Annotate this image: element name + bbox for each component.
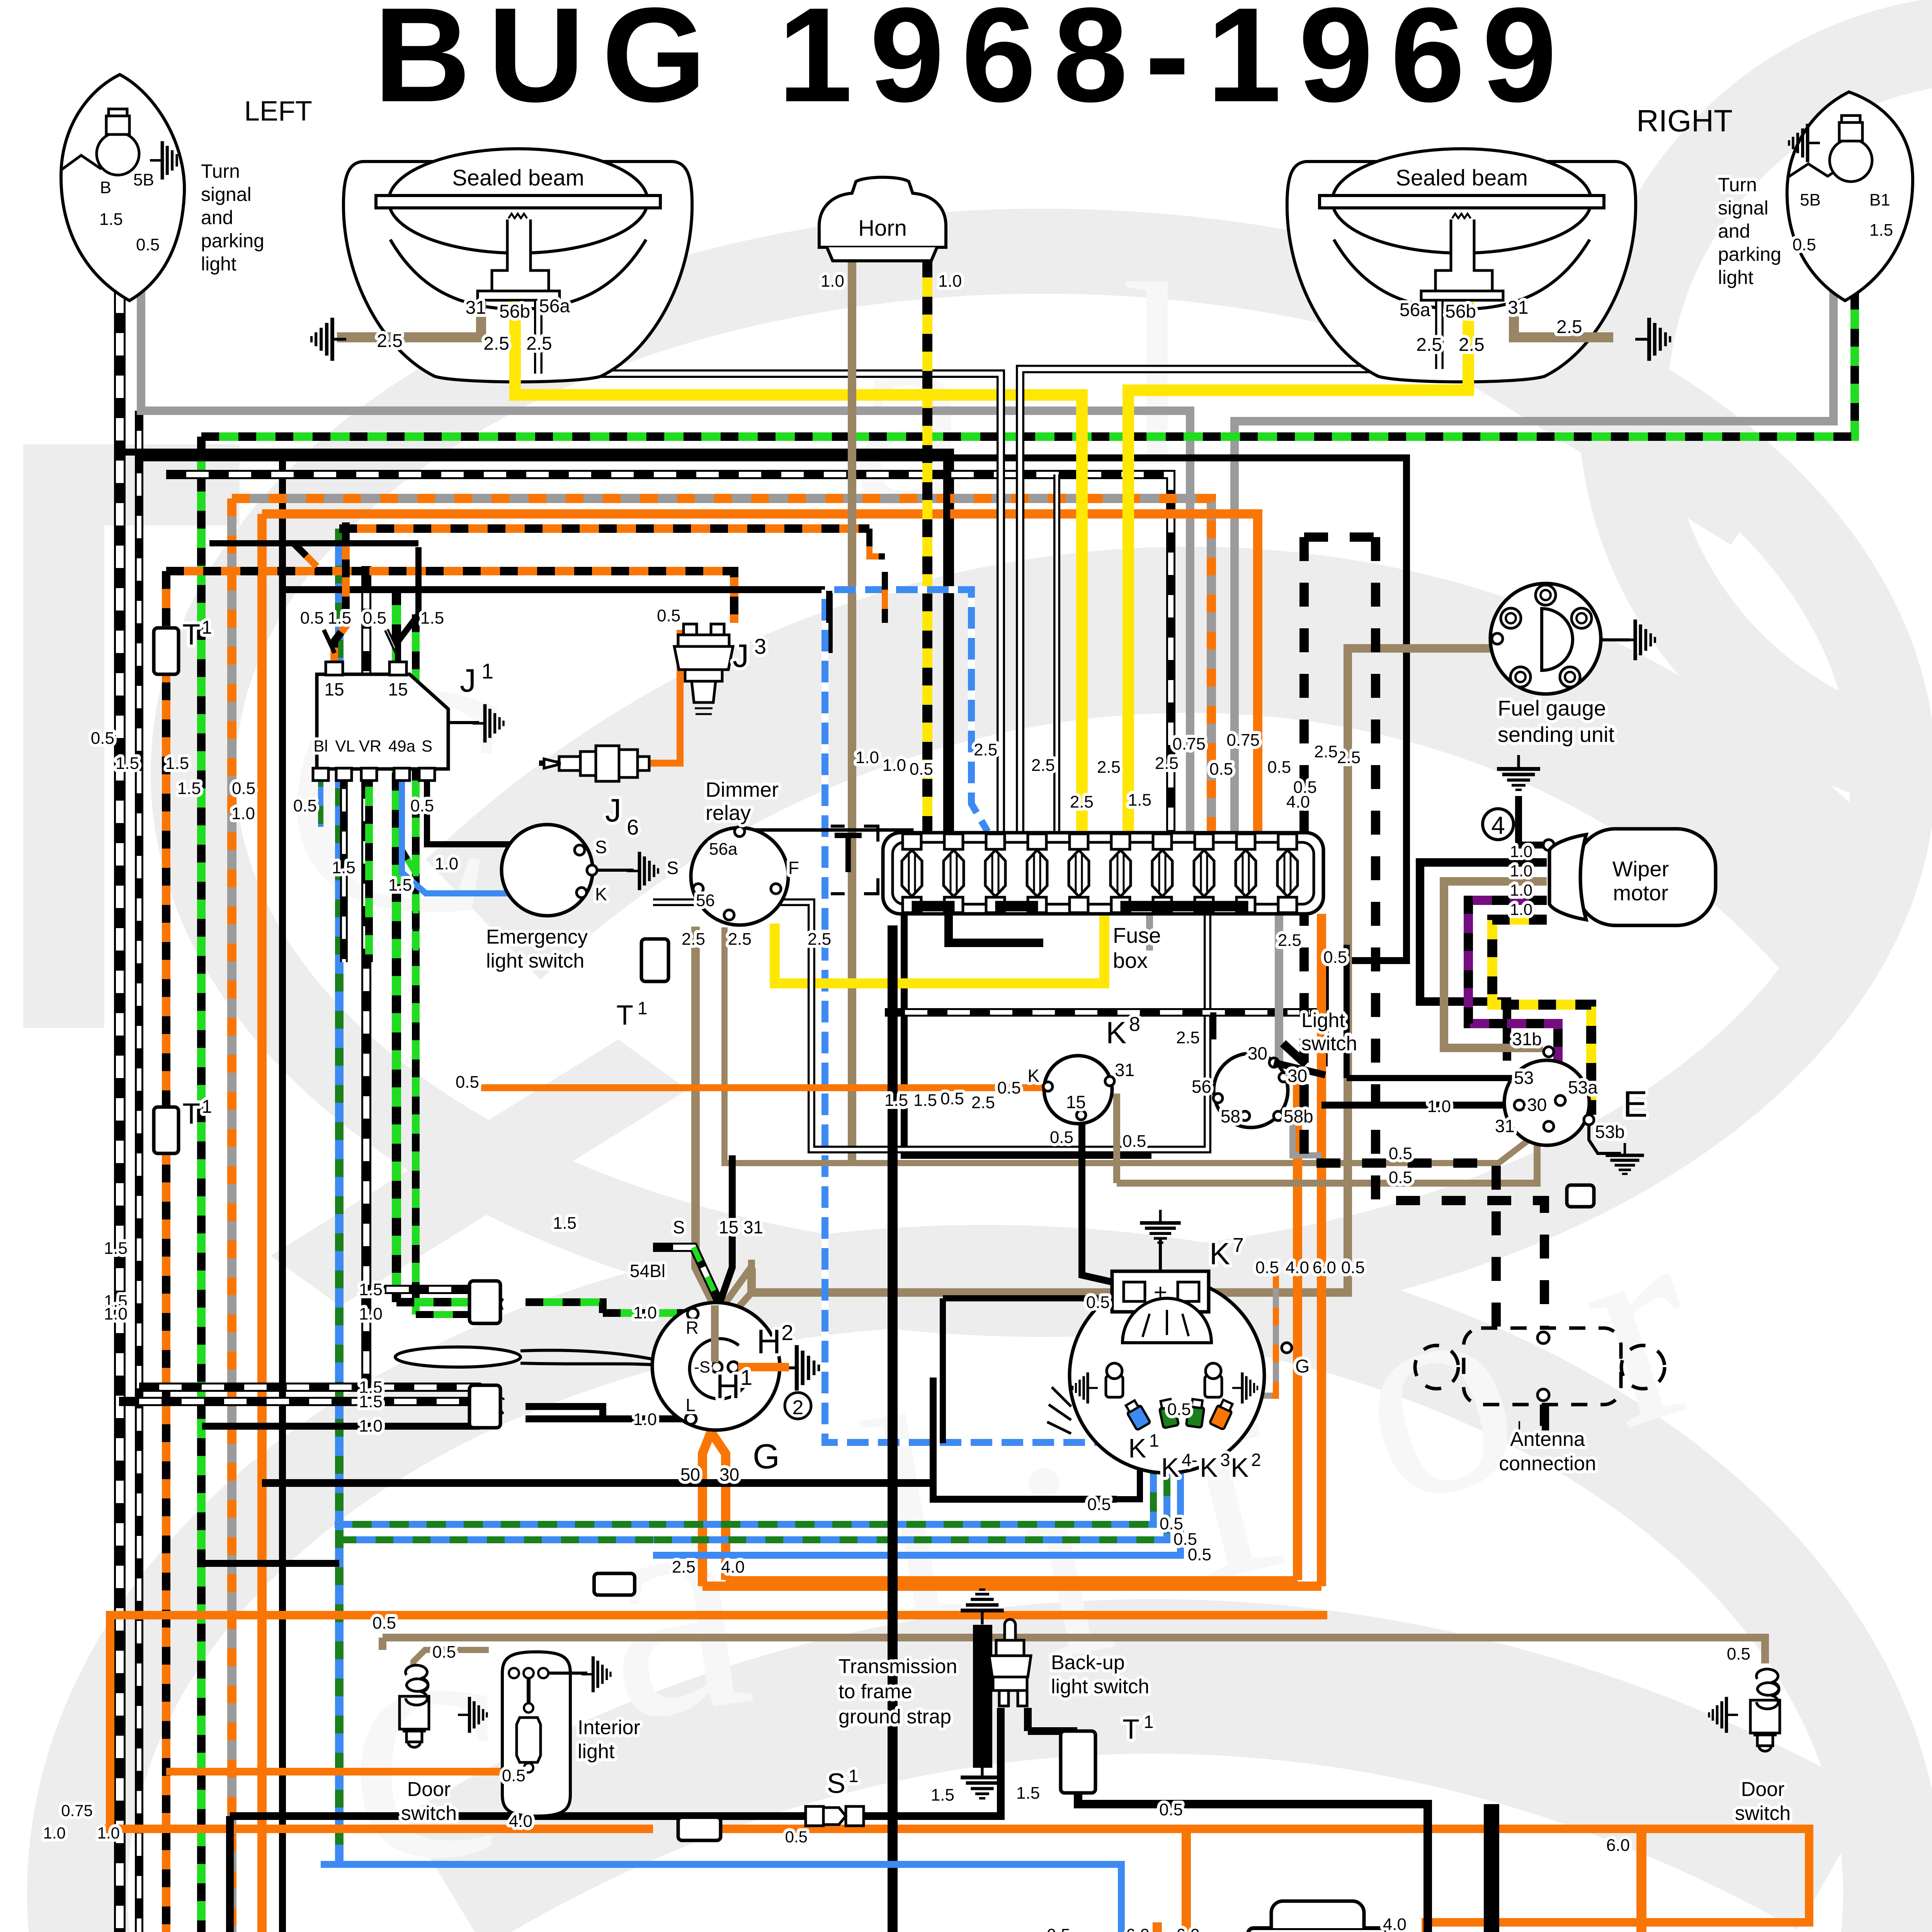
wire <box>1492 920 1591 1115</box>
svg-text:0.5: 0.5 <box>1389 1168 1412 1187</box>
svg-text:T: T <box>616 1000 633 1031</box>
svg-text:S: S <box>827 1768 845 1799</box>
wire R green/black 1.0 <box>603 1309 687 1317</box>
wire <box>718 1155 732 1308</box>
svg-text:H: H <box>757 1322 781 1361</box>
wire <box>510 1772 536 1816</box>
svg-text:1.0: 1.0 <box>883 756 906 775</box>
svg-text:S: S <box>673 1217 685 1237</box>
ground <box>1635 318 1670 361</box>
wire <box>1182 1829 1191 1932</box>
ground <box>458 1697 487 1733</box>
svg-text:54Bl: 54Bl <box>630 1261 665 1281</box>
svg-text:1: 1 <box>202 617 212 638</box>
wire <box>209 540 418 546</box>
connector T <box>154 628 179 674</box>
wire <box>398 547 418 674</box>
svg-text:4: 4 <box>1491 811 1505 839</box>
connector T <box>154 1107 179 1153</box>
wire <box>1153 1922 1162 1932</box>
svg-text:Emergency: Emergency <box>486 926 588 948</box>
wire <box>711 1432 726 1580</box>
connector T1 (fuse box left) <box>835 835 862 872</box>
svg-text:1.0: 1.0 <box>43 1824 66 1842</box>
wire <box>230 1812 806 1820</box>
ground <box>311 318 346 361</box>
svg-text:1.0: 1.0 <box>938 272 962 291</box>
wire <box>383 1638 1765 1663</box>
svg-text:53a: 53a <box>1568 1077 1598 1097</box>
svg-text:31: 31 <box>466 298 486 318</box>
wire <box>321 1864 1121 1932</box>
svg-text:5B: 5B <box>1800 190 1821 209</box>
wire <box>135 411 143 1932</box>
wire gray 0.5 right signal to fuse <box>1235 182 1833 833</box>
wire brown S inside H <box>711 1305 719 1362</box>
svg-text:c: c <box>348 1545 502 1930</box>
wire <box>1159 1238 1162 1271</box>
svg-text:30: 30 <box>1248 1043 1267 1063</box>
wire <box>202 1410 502 1426</box>
instrument cluster K7 <box>1070 1278 1264 1473</box>
svg-text:1: 1 <box>202 1097 212 1117</box>
svg-text:and: and <box>1718 220 1750 242</box>
ground <box>1605 1143 1644 1174</box>
svg-text:53: 53 <box>1514 1068 1534 1088</box>
svg-text:56b: 56b <box>499 301 530 322</box>
svg-text:Back-up: Back-up <box>1051 1651 1125 1674</box>
headlight right (sealed beam) <box>1287 162 1636 382</box>
wire brown 0.5 to E <box>1117 1140 1537 1183</box>
horn <box>819 177 946 247</box>
svg-text:1.5: 1.5 <box>1128 791 1151 810</box>
svg-text:0.75: 0.75 <box>1172 735 1206 753</box>
ground <box>1622 619 1655 660</box>
turn signal and parking light right <box>1787 92 1913 301</box>
svg-text:light: light <box>578 1740 615 1763</box>
svg-text:VR: VR <box>359 737 381 755</box>
wire <box>1347 1075 1519 1081</box>
wire <box>1028 1727 1077 1735</box>
ground <box>473 704 503 742</box>
fuel gauge sending unit <box>1490 583 1601 694</box>
wire <box>548 1672 587 1675</box>
svg-text:2: 2 <box>781 1320 793 1345</box>
svg-text:connection: connection <box>1499 1452 1596 1475</box>
svg-text:6.0: 6.0 <box>1126 1925 1150 1932</box>
svg-text:0.5: 0.5 <box>1341 1258 1365 1277</box>
wire <box>696 927 715 1367</box>
connector T <box>594 1573 635 1595</box>
wire <box>653 1437 1153 1524</box>
wire <box>427 769 498 844</box>
wire <box>201 195 1855 437</box>
wire yellow 56b left headlight <box>509 301 521 395</box>
wire <box>825 590 1117 1442</box>
svg-text:1.5: 1.5 <box>913 1091 937 1110</box>
svg-text:K: K <box>1027 1066 1039 1086</box>
svg-text:1.0: 1.0 <box>1510 881 1532 899</box>
svg-text:15: 15 <box>1066 1092 1086 1112</box>
wire <box>775 915 1104 983</box>
wire <box>279 452 286 1932</box>
relay K8 <box>1044 1056 1112 1124</box>
wire <box>479 1289 502 1302</box>
svg-text:0.5: 0.5 <box>940 1089 964 1108</box>
svg-text:0.5: 0.5 <box>293 796 317 815</box>
svg-text:0.5: 0.5 <box>1159 1800 1183 1819</box>
svg-text:0.5: 0.5 <box>1087 1495 1111 1514</box>
svg-text:2.5: 2.5 <box>1070 793 1094 811</box>
svg-text:0.5: 0.5 <box>1293 778 1317 797</box>
svg-text:0.5: 0.5 <box>1047 1925 1070 1932</box>
svg-text:-S: -S <box>694 1358 710 1376</box>
light switch <box>1214 1053 1288 1128</box>
wire <box>930 1378 937 1483</box>
svg-text:1.0: 1.0 <box>104 1304 128 1323</box>
svg-text:1.0: 1.0 <box>633 1303 657 1322</box>
svg-text:J: J <box>460 662 476 699</box>
wire <box>294 543 317 566</box>
svg-text:2.5: 2.5 <box>1459 335 1485 355</box>
svg-text:1.0: 1.0 <box>359 1417 383 1435</box>
svg-text:4.0: 4.0 <box>1383 1915 1406 1932</box>
wire <box>448 721 479 724</box>
wire <box>402 769 416 962</box>
svg-text:light: light <box>1718 267 1753 288</box>
wire <box>649 630 680 763</box>
wire <box>702 1432 711 1586</box>
starter <box>1248 1928 1387 1932</box>
wire <box>119 452 951 833</box>
ground <box>1140 1210 1180 1243</box>
svg-text:0.5: 0.5 <box>372 1614 396 1633</box>
wire <box>922 260 932 833</box>
wire <box>262 1479 933 1487</box>
wire <box>1636 1829 1646 1932</box>
wire <box>940 1298 946 1443</box>
svg-text:56: 56 <box>1192 1077 1211 1097</box>
svg-text:0.5: 0.5 <box>300 609 324 628</box>
svg-text:and: and <box>201 207 233 228</box>
svg-text:Horn: Horn <box>858 216 907 241</box>
wire <box>396 1298 479 1306</box>
wire <box>933 1378 1117 1499</box>
svg-text:4.0: 4.0 <box>1286 1258 1309 1277</box>
wire <box>1514 301 1613 337</box>
wire <box>232 498 1211 833</box>
ground <box>1789 124 1820 162</box>
wire <box>166 571 734 623</box>
svg-text:Fuse: Fuse <box>1113 923 1161 947</box>
svg-text:1.5: 1.5 <box>116 754 139 773</box>
wire <box>699 1829 1809 1932</box>
svg-text:Turn: Turn <box>201 160 240 182</box>
wire <box>114 185 126 1932</box>
svg-text:30: 30 <box>1527 1095 1547 1115</box>
wire <box>166 1768 510 1776</box>
svg-text:light switch: light switch <box>1051 1675 1149 1698</box>
svg-text:0.5: 0.5 <box>1188 1545 1211 1564</box>
svg-text:Sealed beam: Sealed beam <box>1396 165 1528 190</box>
ground <box>1073 1372 1098 1404</box>
svg-text:5B: 5B <box>133 170 154 189</box>
wire <box>1468 900 1558 1097</box>
svg-text:1.5: 1.5 <box>359 1392 383 1411</box>
wiper motor <box>1577 829 1716 925</box>
svg-text:G: G <box>1295 1356 1310 1377</box>
svg-text:0.5: 0.5 <box>432 1643 456 1662</box>
svg-text:Turn: Turn <box>1718 174 1757 196</box>
svg-text:VL: VL <box>335 737 355 755</box>
svg-text:2: 2 <box>793 1396 804 1419</box>
ground <box>782 1345 819 1391</box>
wire <box>1024 1708 1032 1731</box>
wire <box>653 1441 1167 1540</box>
svg-text:49a: 49a <box>388 737 416 755</box>
wire <box>162 571 170 1932</box>
wire <box>702 1582 1321 1591</box>
wire <box>337 301 481 337</box>
svg-text:Fuel gauge: Fuel gauge <box>1498 696 1606 720</box>
svg-text:motor: motor <box>1613 881 1668 905</box>
svg-text:2.5: 2.5 <box>1556 317 1582 337</box>
svg-text:0.5: 0.5 <box>1086 1293 1110 1312</box>
svg-text:box: box <box>1113 948 1148 973</box>
svg-text:0.5: 0.5 <box>657 606 680 625</box>
wire <box>864 1708 1001 1816</box>
wire <box>1317 914 1326 1078</box>
svg-text:F: F <box>788 858 799 878</box>
svg-text:RIGHT: RIGHT <box>1636 104 1733 138</box>
svg-text:15: 15 <box>324 679 344 699</box>
svg-text:J: J <box>605 792 621 828</box>
svg-text:56a: 56a <box>1400 300 1430 320</box>
svg-text:1.5: 1.5 <box>99 210 123 229</box>
svg-text:53b: 53b <box>1595 1122 1625 1142</box>
wire <box>481 1084 1045 1091</box>
switch J3 <box>674 624 733 714</box>
wire <box>197 437 206 1932</box>
svg-text:4.0: 4.0 <box>721 1558 745 1577</box>
svg-text:4-: 4- <box>1182 1450 1197 1470</box>
svg-text:1.0: 1.0 <box>633 1410 657 1429</box>
relay J1 <box>317 674 448 769</box>
ignition/steering switch H <box>652 1303 780 1430</box>
wire <box>538 301 1001 833</box>
svg-text:2.5: 2.5 <box>682 930 705 949</box>
wire <box>139 458 1406 1039</box>
wire <box>416 1306 502 1315</box>
svg-text:7: 7 <box>1233 1234 1244 1257</box>
svg-text:1: 1 <box>1144 1712 1154 1732</box>
connector T <box>641 939 668 981</box>
wire <box>515 301 1082 833</box>
wire <box>166 474 1171 833</box>
svg-text:K: K <box>1161 1452 1179 1483</box>
svg-text:ground strap: ground strap <box>838 1706 951 1728</box>
svg-text:Antenna: Antenna <box>1510 1428 1585 1451</box>
turn signal lever <box>395 1347 520 1367</box>
wire <box>1275 914 1283 1066</box>
svg-text:K: K <box>1209 1236 1230 1271</box>
svg-text:K: K <box>1231 1452 1249 1483</box>
wire <box>1420 862 1547 1061</box>
wire <box>1210 1012 1216 1039</box>
wire <box>282 590 829 653</box>
svg-text:2.5: 2.5 <box>971 1093 995 1112</box>
svg-text:signal: signal <box>1718 197 1769 219</box>
wire <box>110 1615 1327 1829</box>
svg-text:K: K <box>1106 1015 1126 1050</box>
svg-text:Wiper: Wiper <box>1612 857 1669 881</box>
connector T <box>469 1281 500 1323</box>
svg-text:parking: parking <box>1718 243 1781 265</box>
wire <box>943 456 950 833</box>
inline fuse S1 <box>806 1806 823 1826</box>
svg-text:2.5: 2.5 <box>1031 756 1055 775</box>
wire <box>1344 945 1350 1078</box>
svg-text:1: 1 <box>638 998 648 1018</box>
wire <box>720 1267 752 1310</box>
svg-text:2.5: 2.5 <box>1097 758 1121 777</box>
svg-text:2.5: 2.5 <box>526 333 552 354</box>
wire <box>539 760 558 766</box>
svg-text:30: 30 <box>1287 1066 1307 1086</box>
wire <box>723 1260 752 1325</box>
svg-text:G: G <box>753 1437 780 1476</box>
svg-text:1.0: 1.0 <box>97 1824 120 1842</box>
wire brown dimmer 56 to E 31 <box>724 927 1526 1163</box>
wire <box>100 1825 653 1833</box>
wire <box>933 1430 1140 1499</box>
wire <box>227 498 236 1932</box>
dimmer relay <box>691 828 788 925</box>
ground <box>627 852 658 890</box>
svg-text:0.5: 0.5 <box>997 1078 1021 1097</box>
svg-text:56b: 56b <box>1445 301 1476 322</box>
svg-text:1.5: 1.5 <box>332 858 355 877</box>
svg-text:0.5: 0.5 <box>1389 1144 1412 1163</box>
wire <box>413 1650 489 1673</box>
svg-text:Door: Door <box>1741 1778 1785 1801</box>
wire <box>745 830 912 835</box>
wire <box>1082 1121 1124 1285</box>
wire <box>1078 1793 1428 1932</box>
svg-text:K: K <box>1200 1452 1218 1483</box>
wire brown fuel gauge to H 31 <box>752 648 1500 1293</box>
svg-text:0.5: 0.5 <box>1267 758 1291 777</box>
svg-text:2.5: 2.5 <box>808 930 831 949</box>
wire <box>365 769 373 962</box>
wire <box>869 529 885 556</box>
svg-text:K: K <box>595 884 607 904</box>
wire gray/orange 0.5 K7 <box>1198 1273 1276 1396</box>
svg-text:0.5: 0.5 <box>363 609 386 628</box>
svg-text:2.5: 2.5 <box>377 331 403 351</box>
wire <box>335 529 344 1864</box>
svg-text:1.5: 1.5 <box>931 1786 954 1804</box>
wire <box>1020 301 1439 833</box>
svg-text:1.5: 1.5 <box>328 609 351 628</box>
svg-text:6.0: 6.0 <box>1606 1836 1630 1855</box>
svg-text:0.5: 0.5 <box>502 1766 526 1785</box>
svg-text:1.5: 1.5 <box>104 1239 128 1258</box>
svg-text:Door: Door <box>407 1778 451 1801</box>
svg-text:1.5: 1.5 <box>1016 1784 1040 1803</box>
svg-text:0.5: 0.5 <box>1209 760 1233 779</box>
svg-text:2.5: 2.5 <box>1155 754 1179 773</box>
svg-text:58b: 58b <box>1284 1106 1313 1126</box>
wire <box>943 1295 1121 1301</box>
svg-text:31: 31 <box>1495 1116 1515 1136</box>
svg-text:1.0: 1.0 <box>855 748 879 767</box>
wire <box>825 590 988 832</box>
wire orange bus to fuse <box>262 514 1258 833</box>
wire <box>1317 1078 1326 1586</box>
wire <box>202 1560 339 1567</box>
wire <box>340 769 348 962</box>
svg-text:2.5: 2.5 <box>672 1558 696 1577</box>
transmission to frame ground strap <box>973 1625 992 1768</box>
svg-text:2.5: 2.5 <box>1278 931 1301 950</box>
wire <box>318 769 323 827</box>
svg-text:2.5: 2.5 <box>1176 1028 1200 1047</box>
svg-text:1.5: 1.5 <box>177 779 201 798</box>
svg-text:R: R <box>686 1318 699 1338</box>
svg-text:0.5: 0.5 <box>910 760 933 779</box>
wire <box>726 1576 1298 1584</box>
wire <box>1600 638 1630 641</box>
svg-text:2.5: 2.5 <box>483 333 509 354</box>
svg-text:K: K <box>1128 1433 1146 1463</box>
connector T <box>1567 1185 1594 1207</box>
wire 54Bl white/green <box>653 1247 719 1301</box>
wire <box>904 914 1151 1155</box>
wire <box>392 587 401 1302</box>
svg-text:2.5: 2.5 <box>1314 742 1338 761</box>
svg-text:1.5: 1.5 <box>884 1091 908 1110</box>
svg-text:0.5: 0.5 <box>1122 1132 1146 1151</box>
fuse box bottom bus bridges <box>912 901 954 911</box>
svg-text:BUG 1968-1969: BUG 1968-1969 <box>374 0 1574 130</box>
svg-text:Sealed beam: Sealed beam <box>452 165 584 190</box>
svg-text:Transmission: Transmission <box>838 1655 957 1678</box>
wire <box>335 1521 653 1528</box>
svg-text:S: S <box>422 737 432 755</box>
svg-text:Light: Light <box>1301 1009 1345 1032</box>
svg-text:Dimmer: Dimmer <box>706 778 779 801</box>
emergency light switch <box>502 825 593 916</box>
svg-text:58: 58 <box>1221 1106 1240 1126</box>
antenna / radio (dashed) <box>1415 1328 1665 1405</box>
wiper switch E <box>1504 1060 1589 1145</box>
svg-text:switch: switch <box>401 1802 457 1825</box>
svg-text:1.5: 1.5 <box>388 876 412 895</box>
door switch <box>1750 1669 1780 1751</box>
svg-text:31b: 31b <box>1512 1029 1542 1049</box>
svg-text:relay: relay <box>706 801 751 825</box>
svg-text:30: 30 <box>719 1464 739 1485</box>
svg-text:H: H <box>716 1367 740 1405</box>
svg-text:sending unit: sending unit <box>1498 722 1614 747</box>
wire <box>883 978 1104 988</box>
wire <box>334 522 346 674</box>
svg-text:0.5: 0.5 <box>1727 1645 1750 1663</box>
wire white 56a right headlight <box>1435 301 1444 369</box>
connector T <box>469 1385 500 1428</box>
svg-text:0.5: 0.5 <box>91 729 114 748</box>
